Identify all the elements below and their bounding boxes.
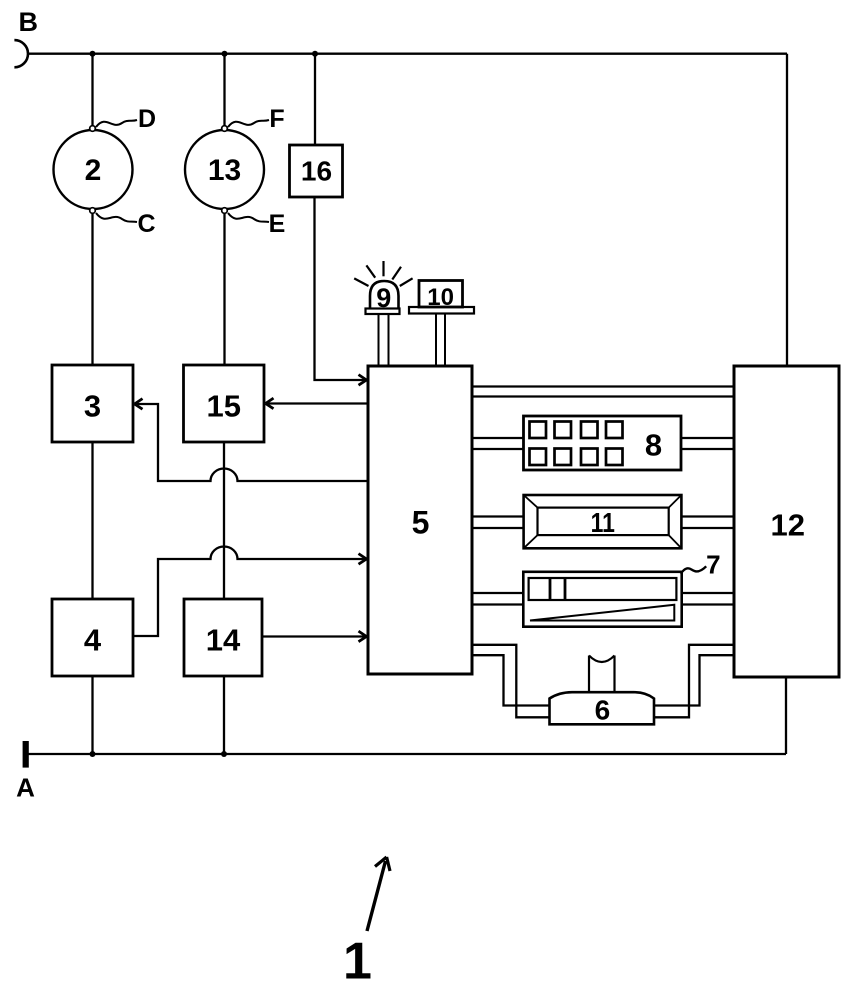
leader F bbox=[228, 105, 285, 133]
host block 12 bbox=[734, 366, 839, 677]
bus 5 to keypad 8 bbox=[472, 438, 524, 449]
wire 16 to controller 5 bbox=[315, 197, 367, 380]
terminal A bbox=[23, 741, 29, 768]
beacon 9 bbox=[366, 281, 400, 314]
wire 4 to 5 with hump bbox=[133, 546, 367, 636]
svg-text:7: 7 bbox=[706, 550, 720, 580]
wire B to device 2 bbox=[91, 54, 93, 126]
svg-text:4: 4 bbox=[84, 623, 102, 658]
svg-text:E: E bbox=[269, 210, 286, 238]
wire right drop to 12 bbox=[786, 54, 788, 366]
svg-text:11: 11 bbox=[591, 508, 615, 539]
wire 5 to 15 arrow bbox=[266, 402, 369, 404]
bottom rail A bbox=[29, 753, 787, 755]
leader 7 bbox=[681, 550, 721, 580]
wire 14 to 5 arrow bbox=[262, 635, 367, 637]
arrowhead into 5 upper bbox=[359, 375, 367, 386]
signal device 13 bbox=[185, 130, 264, 209]
svg-text:16: 16 bbox=[301, 156, 332, 187]
annunciator 10 legs bbox=[436, 314, 445, 367]
terminal B bbox=[14, 40, 28, 67]
bus 5 to display 11 bbox=[472, 517, 524, 529]
controller 5 bbox=[368, 366, 472, 674]
svg-text:14: 14 bbox=[206, 623, 241, 658]
contact dot bottom of 13 bbox=[222, 208, 228, 214]
wire 15 to 14 bbox=[223, 442, 225, 599]
handset bus right inner bbox=[654, 655, 734, 705]
wire B to block 16 bbox=[314, 54, 316, 145]
wire 3 to 4 bbox=[91, 442, 93, 599]
svg-text:10: 10 bbox=[427, 284, 454, 311]
beacon 9 legs bbox=[379, 314, 389, 366]
block 4 bbox=[52, 599, 133, 676]
junction dot above 13 bbox=[222, 51, 228, 57]
figure arrow bbox=[367, 857, 390, 931]
handset bus left outer bbox=[472, 645, 550, 718]
keypad 8 bbox=[524, 416, 682, 470]
svg-text:1: 1 bbox=[343, 933, 372, 991]
meter 7 bbox=[523, 572, 681, 627]
contact dot top of 2 bbox=[90, 126, 96, 132]
wire 13 to block 15 bbox=[223, 214, 225, 365]
wire B to device 13 bbox=[223, 54, 225, 126]
svg-text:12: 12 bbox=[771, 508, 805, 543]
wire 2 to block 3 bbox=[91, 214, 93, 365]
junction dot rail A right bbox=[221, 751, 227, 757]
svg-text:3: 3 bbox=[84, 389, 101, 424]
svg-text:8: 8 bbox=[645, 428, 662, 463]
handset 6 neck bbox=[589, 656, 615, 693]
svg-text:F: F bbox=[269, 105, 284, 133]
bus 5 to meter 7 bbox=[472, 593, 523, 605]
contact dot top of 13 bbox=[222, 126, 228, 132]
svg-text:9: 9 bbox=[376, 283, 391, 313]
svg-text:13: 13 bbox=[208, 154, 241, 187]
display 11 bbox=[524, 495, 682, 548]
svg-text:C: C bbox=[137, 210, 155, 238]
contact dot bottom of 2 bbox=[90, 208, 96, 214]
wire 4 to rail A bbox=[91, 676, 93, 754]
arrowhead into 15 bbox=[266, 398, 274, 409]
leader E bbox=[228, 210, 285, 238]
bus keypad 8 to 12 bbox=[681, 438, 734, 449]
annunciator 10 bbox=[409, 281, 474, 314]
arrowhead into 5 lower bbox=[359, 631, 367, 642]
svg-text:D: D bbox=[138, 105, 156, 133]
block 3 bbox=[52, 365, 133, 442]
wire 12 to rail A bbox=[785, 677, 787, 754]
wire top rail B bbox=[28, 53, 788, 55]
leader D bbox=[96, 105, 156, 133]
svg-text:2: 2 bbox=[85, 154, 102, 187]
svg-text:B: B bbox=[19, 7, 39, 37]
svg-text:A: A bbox=[16, 773, 35, 803]
block 14 bbox=[184, 599, 262, 676]
handset 6 body bbox=[550, 692, 655, 725]
leader C bbox=[96, 210, 156, 238]
wire 5 to 3 with hump bbox=[135, 404, 369, 481]
junction dot above 16 bbox=[312, 51, 318, 57]
svg-text:6: 6 bbox=[595, 695, 611, 726]
junction dot rail A left bbox=[90, 751, 96, 757]
wire 14 to rail A bbox=[223, 676, 225, 754]
svg-text:5: 5 bbox=[412, 505, 430, 541]
bus meter 7 to 12 bbox=[682, 593, 734, 605]
block 15 bbox=[184, 365, 265, 442]
arrowhead into 3 bbox=[135, 399, 143, 410]
handset bus right outer bbox=[654, 645, 734, 718]
bus 5 to 12 top pair bbox=[472, 387, 734, 397]
beacon 9 rays bbox=[354, 261, 412, 286]
handset bus left inner bbox=[472, 655, 550, 705]
svg-text:15: 15 bbox=[207, 389, 241, 424]
arrowhead into 5 middle bbox=[359, 554, 367, 565]
block 16 bbox=[290, 145, 343, 197]
signal device 2 bbox=[54, 130, 133, 209]
junction dot above 2 bbox=[90, 51, 96, 57]
bus display 11 to 12 bbox=[681, 517, 734, 529]
